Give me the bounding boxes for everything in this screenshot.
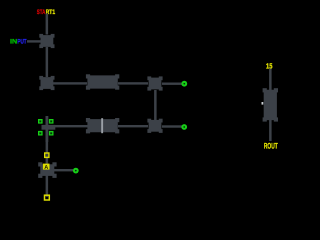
svg-text:PUT: PUT — [17, 38, 26, 45]
badge A on M1 (yellow) — [43, 164, 50, 171]
wire: M1 to node C — [54, 169, 73, 171]
resistor R2 — [86, 118, 119, 133]
node B (green) — [181, 124, 187, 130]
pin pad 4 of X1 — [49, 131, 54, 136]
pin mark on R3 — [262, 102, 264, 105]
wire: junction X1 to R2 — [52, 125, 88, 127]
R2 center divider — [101, 118, 103, 133]
svg-text:ROUT: ROUT — [264, 142, 278, 151]
svg-text:A: A — [44, 165, 48, 171]
meter M1 — [38, 162, 56, 178]
wire: R1 to Q3 — [118, 82, 148, 84]
port P1 (yellow square) — [45, 153, 49, 157]
transistor Q2 — [39, 76, 54, 90]
wire: Q2 to R1 — [53, 82, 87, 84]
pin pad 3 of X1 — [38, 131, 43, 136]
net label INPUT (left) — [10, 38, 27, 45]
port P2 (yellow square, bottom) — [45, 195, 50, 200]
svg-text:STA: STA — [37, 9, 46, 16]
wire: top label to Q1 drain — [46, 14, 49, 35]
wire: R2 to Q4 — [118, 125, 148, 127]
pin pad 2 of X1 — [49, 119, 54, 124]
wire: gate into Q1 — [27, 40, 41, 42]
wire: Q3 to Q4 — [154, 90, 157, 120]
net label START (top) — [37, 9, 56, 16]
pin pad 1 of X1 — [38, 119, 43, 124]
node A (green) — [181, 81, 187, 87]
wire: R3 to label ROUT — [269, 119, 272, 141]
junction X1 (cross with green pads) — [42, 116, 56, 142]
wire: Q1 source to Q2 drain — [46, 47, 49, 77]
wire: X1 down through port P1 to meter M1 — [46, 142, 49, 197]
wire: label 15 to R3 — [269, 69, 272, 92]
node C (green) — [73, 168, 79, 174]
resistor R3 (vertical) — [263, 88, 278, 121]
wire: Q3 to node A — [162, 83, 182, 85]
wire: Q4 to node B — [162, 125, 182, 127]
resistor R1 — [86, 74, 119, 89]
transistor Q1 — [39, 34, 54, 48]
transistor Q4 — [147, 119, 162, 133]
transistor Q3 — [147, 76, 162, 90]
